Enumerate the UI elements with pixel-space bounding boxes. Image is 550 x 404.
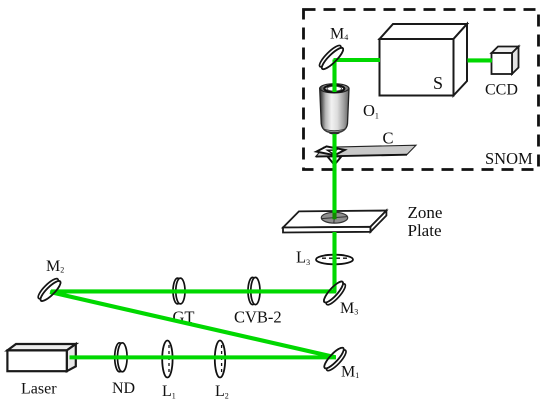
zone plate slab (283, 211, 386, 233)
mirror M4 body (317, 43, 346, 72)
svg-text:CVB-2: CVB-2 (234, 308, 282, 327)
box S (380, 24, 468, 96)
SNOM dashed enclosure (304, 10, 539, 170)
svg-text:C: C (383, 129, 394, 148)
svg-text:ND: ND (112, 380, 135, 397)
mirror M1 outline (322, 345, 346, 370)
lens CVB-2 (248, 277, 260, 304)
mirror M2 body (36, 276, 63, 303)
lens GT (173, 278, 185, 304)
beam objective to M4 (332, 60, 336, 93)
zone plate sample spot (321, 212, 347, 223)
beam M3 up to zone plate (332, 232, 336, 293)
svg-text:CCD: CCD (485, 82, 518, 99)
lens ND (115, 343, 127, 372)
objective O1 (320, 84, 349, 134)
beam laser to M1 (70, 355, 337, 359)
mirror M4 outline (319, 45, 345, 71)
diamond holder frame (316, 146, 344, 155)
beam M1 to M2 diagonal (50, 292, 336, 357)
cantilever tip triangle (327, 156, 341, 165)
beam M4 to S (334, 58, 381, 62)
lens L1 (162, 341, 172, 378)
lens L3 (316, 255, 353, 265)
beam M2 to M3 (51, 289, 336, 293)
beam zone plate spot up through cantilever to objective (332, 134, 336, 213)
mirror M1 body (322, 345, 349, 373)
mirror M3 body (321, 279, 347, 307)
lens L2 (215, 341, 225, 378)
mirror M2 outline (38, 279, 63, 304)
svg-text:Zone: Zone (408, 203, 443, 222)
svg-text:Plate: Plate (408, 221, 442, 240)
svg-text:Laser: Laser (21, 381, 57, 398)
laser box (7, 344, 75, 371)
CCD cube (492, 47, 519, 75)
mirror M3 outline (321, 279, 345, 305)
svg-text:S: S (433, 73, 443, 93)
svg-text:SNOM: SNOM (485, 149, 533, 168)
beam S to CCD (468, 58, 493, 62)
cantilever C plate (316, 145, 416, 156)
beam dark tip at zone plate spot (332, 213, 336, 220)
pyramid pit inside holder (327, 150, 336, 153)
